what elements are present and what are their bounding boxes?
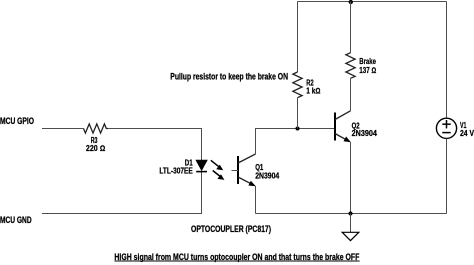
wire bbox=[350, 78, 352, 111]
ground bbox=[342, 214, 359, 241]
wire bbox=[446, 2, 448, 119]
wire bbox=[298, 128, 336, 130]
svg-text:Brake: Brake bbox=[359, 57, 376, 66]
wire bottom rail bbox=[256, 213, 447, 215]
svg-text:Pullup resistor to keep the br: Pullup resistor to keep the brake ON bbox=[170, 72, 288, 82]
wire bbox=[350, 2, 352, 53]
junction bbox=[296, 127, 300, 131]
wire bbox=[42, 172, 202, 214]
svg-text:2N3904: 2N3904 bbox=[255, 171, 279, 180]
junction bbox=[349, 212, 353, 216]
svg-text:LTL-307EE: LTL-307EE bbox=[159, 167, 193, 176]
wire bbox=[256, 129, 298, 155]
svg-text:MCU GPIO: MCU GPIO bbox=[0, 116, 34, 126]
wire bbox=[350, 142, 352, 214]
wire bbox=[255, 186, 257, 214]
svg-text:2N3904: 2N3904 bbox=[352, 129, 378, 138]
svg-text:MCU GND: MCU GND bbox=[0, 215, 32, 225]
svg-text:OPTOCOUPLER (PC817): OPTOCOUPLER (PC817) bbox=[191, 224, 271, 234]
resistor Brake bbox=[346, 53, 376, 79]
wire top rail bbox=[298, 1, 447, 3]
svg-text:220 Ω: 220 Ω bbox=[86, 144, 105, 153]
LED D1 bbox=[159, 159, 207, 176]
voltage source V1 bbox=[436, 118, 474, 138]
wire bbox=[108, 129, 201, 161]
svg-text:24 V: 24 V bbox=[460, 129, 474, 138]
wire bbox=[297, 2, 299, 73]
wire bbox=[446, 138, 448, 213]
resistor R2 bbox=[293, 72, 320, 98]
wire bbox=[42, 128, 84, 130]
svg-text:137 Ω: 137 Ω bbox=[359, 66, 376, 75]
annotation bottom note bbox=[114, 252, 359, 262]
optocoupler light arrows bbox=[211, 160, 225, 180]
resistor R3 bbox=[84, 124, 109, 153]
svg-text:1 kΩ: 1 kΩ bbox=[306, 86, 320, 95]
transistor Q2 bbox=[335, 111, 377, 143]
wire bbox=[297, 98, 299, 129]
junction bbox=[349, 0, 353, 4]
transistor Q1 bbox=[232, 154, 280, 186]
